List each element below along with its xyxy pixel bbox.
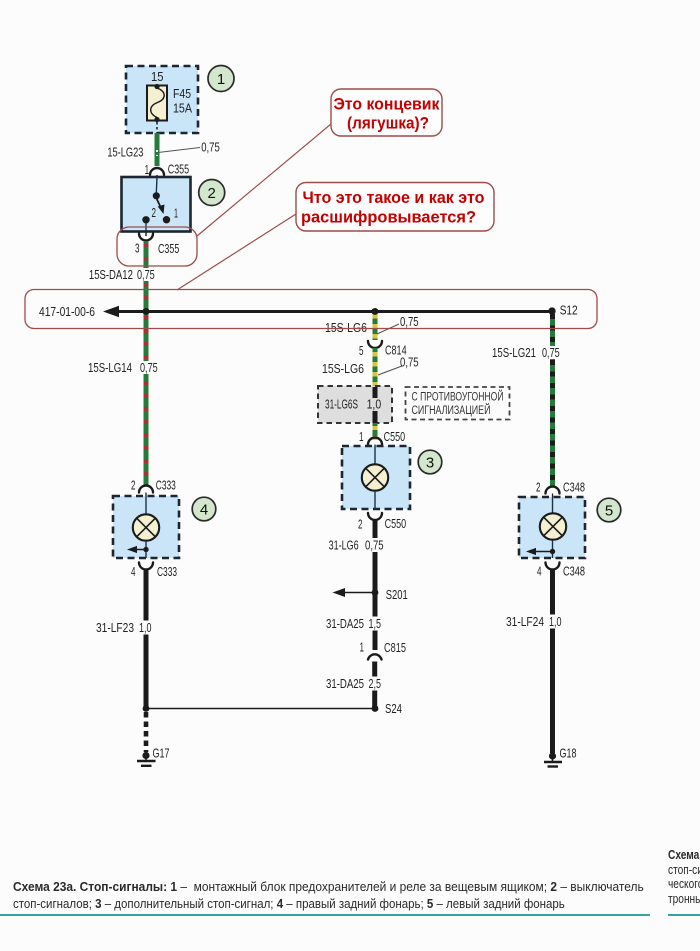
svg-text:3: 3 [426, 454, 434, 471]
dashed wire to ground G17 [144, 712, 149, 752]
teal footer rule left [0, 914, 650, 916]
svg-text:C355: C355 [168, 162, 189, 177]
junction node on bus (middle branch) [372, 308, 379, 315]
junction dot overlay S12 [548, 307, 555, 314]
right column text fragment [668, 848, 700, 906]
svg-text:1: 1 [360, 640, 365, 655]
svg-text:0,75: 0,75 [201, 140, 220, 155]
splice label S201 [383, 587, 409, 600]
stop light switch (component 2) [122, 177, 191, 232]
svg-text:S201: S201 [386, 587, 408, 602]
svg-text:(лягушка)?: (лягушка)? [347, 115, 429, 133]
svg-text:1,0: 1,0 [139, 620, 152, 635]
leader to 0,75 (lower) [378, 366, 402, 375]
red highlight box around bus [25, 290, 597, 329]
svg-text:0,75: 0,75 [542, 345, 560, 360]
connector C348 pin 4 (arc) [546, 563, 560, 570]
leader line to 0,75 [158, 148, 200, 153]
note box: с противоугонной сигнализацией [406, 387, 510, 420]
switch internal lead [155, 177, 158, 193]
svg-text:15S-LG6: 15S-LG6 [322, 361, 364, 376]
svg-text:4: 4 [537, 564, 542, 579]
wire 31-LG6 (black) lamp3 to S201 [373, 520, 378, 590]
fuse F45 15A [147, 84, 167, 122]
red highlight box around C355 pin 3 [117, 227, 197, 266]
svg-text:417-01-00-6: 417-01-00-6 [39, 304, 95, 319]
switch contact dot pin 2 [142, 216, 149, 223]
right tail lamp (component 4) [113, 496, 179, 558]
switch actuator arrow [157, 199, 165, 214]
svg-text:31-LF24: 31-LF24 [506, 614, 544, 629]
wire label 31-LG6 0,75 [329, 538, 387, 553]
splice label S24 [383, 701, 405, 714]
callout circle 5 [597, 498, 621, 522]
wire 15S-DA12 (green/red) switch to bus [144, 241, 149, 311]
svg-text:C550: C550 [385, 516, 407, 531]
label 31-LG6S 1,0 [325, 397, 384, 412]
svg-text:2: 2 [536, 480, 541, 495]
svg-text:S24: S24 [385, 701, 402, 716]
wire 31-DA25 2,5 C815 to S24 [372, 662, 377, 709]
wire junction line to S24 [146, 708, 375, 710]
svg-text:31-LF23: 31-LF23 [96, 620, 134, 635]
connector C348 pin 2 (arc) [546, 487, 560, 498]
svg-text:0,75: 0,75 [400, 314, 419, 329]
connector C355 pin 3 (arc) [139, 232, 153, 241]
junction dot overlay middle branch [372, 308, 379, 315]
svg-text:3: 3 [135, 241, 140, 256]
wire label 31-LF24 1,0 [506, 614, 565, 629]
callout circle 2 [199, 180, 225, 206]
wire 31-LF23 (black) lamp4 to ground junction [144, 570, 149, 709]
svg-text:15A: 15A [173, 101, 192, 116]
additional stop signal lamp (component 3) [342, 446, 410, 509]
red callout box 1: Это концевик (лягушка)? [331, 89, 442, 136]
svg-text:2: 2 [358, 517, 363, 532]
wire label 31-LF23 1,0 [96, 620, 155, 635]
dashed lead inside fuse box [156, 122, 158, 133]
svg-text:Что это такое и как это: Что это такое и как это [303, 189, 485, 207]
svg-text:C348: C348 [563, 564, 585, 579]
splice box wire 31-LG6S (gray dashed) [318, 386, 392, 423]
svg-text:1: 1 [217, 71, 225, 88]
svg-text:15S-LG14: 15S-LG14 [88, 360, 132, 375]
wire 31-LF24 (black) lamp5 to ground G18 [550, 570, 555, 753]
svg-text:31-DA25: 31-DA25 [326, 676, 364, 691]
connector C814 pin 5 (arc) [368, 341, 382, 348]
switch pin2 lead to bottom [145, 223, 147, 232]
svg-text:СИГНАЛИЗАЦИЕЙ: СИГНАЛИЗАЦИЕЙ [412, 404, 491, 417]
wire 31-DA25 1,5 S201 to C815 [373, 593, 378, 651]
svg-text:1: 1 [145, 162, 150, 177]
svg-text:C355: C355 [158, 241, 179, 256]
wire label 31-DA25 1,5 [326, 616, 384, 631]
svg-text:C333: C333 [157, 564, 177, 579]
svg-text:С ПРОТИВОУГОННОЙ: С ПРОТИВОУГОННОЙ [412, 391, 504, 404]
svg-text:15S-LG21: 15S-LG21 [492, 345, 536, 360]
red leader line to callout 2 [177, 214, 296, 290]
wire 15S-LG21 (green/black) S12 to left tail lamp [550, 311, 555, 486]
lamp 4 internal lead top [145, 496, 147, 515]
svg-text:2: 2 [131, 478, 136, 493]
red leader line to callout 1 [197, 124, 331, 236]
wire 15S-LG14 (green/red) bus to right tail lamp [144, 311, 149, 486]
black wire through splice box [373, 387, 378, 426]
svg-text:1: 1 [174, 206, 178, 221]
svg-text:G18: G18 [560, 746, 577, 761]
callout circle 1 [208, 66, 234, 92]
connector C333 pin 2 (arc) [139, 486, 153, 496]
red callout box 2: Что это такое и как это расшифровывается? [296, 183, 494, 232]
lamp 5 internal node with arrow [526, 540, 555, 558]
svg-text:15S-DA12: 15S-DA12 [89, 267, 133, 282]
ground G18 [544, 752, 562, 766]
lamp 3 bulb symbol [362, 464, 388, 490]
svg-text:5: 5 [605, 502, 613, 519]
wire label 15S-LG21 0,75 [492, 345, 563, 360]
svg-text:31-LG6: 31-LG6 [329, 538, 359, 553]
wire 15S-LG6 (green/yellow) C814 to splice box [373, 348, 378, 387]
wire label 31-DA25 2,5 [326, 676, 384, 691]
junction dot overlay left branch [143, 308, 150, 315]
lamp 4 internal node with arrow [127, 541, 149, 558]
wire label 15S-LG14 0,75 [88, 360, 160, 375]
svg-text:31-LG6S: 31-LG6S [325, 397, 358, 412]
connector C355 pin 1 (arc) [150, 168, 164, 178]
connector C550 pin 1 (arc) [368, 438, 382, 447]
connector C815 pin 1 (arc) [368, 654, 382, 659]
wire label 15S-DA12 0,75 [89, 267, 157, 282]
svg-text:2: 2 [152, 205, 157, 220]
svg-text:S12: S12 [560, 303, 578, 318]
caption line 1 [13, 879, 644, 894]
wire 15-LG23 (green) [155, 133, 160, 166]
leader to 0,75 (upper) [377, 324, 399, 334]
connector C550 pin 2 (arc) [368, 513, 382, 520]
fuse value label F45 15A [173, 86, 192, 116]
svg-text:Это концевик: Это концевик [334, 96, 441, 114]
svg-text:0,75: 0,75 [400, 355, 419, 370]
svg-text:4: 4 [200, 501, 208, 518]
svg-text:1: 1 [359, 429, 364, 444]
switch common contact dot [153, 192, 160, 199]
callout circle 4 [192, 497, 216, 521]
wire 15S-LG6 (green/yellow) bus to C814 [373, 311, 378, 340]
left tail lamp (component 5) [519, 497, 585, 558]
svg-text:15S-LG6: 15S-LG6 [325, 320, 367, 335]
svg-text:15: 15 [151, 69, 164, 84]
svg-text:5: 5 [359, 343, 364, 358]
svg-text:0,75: 0,75 [365, 538, 384, 553]
lamp 3 internal lead top [374, 446, 376, 465]
caption line 2 [13, 896, 565, 911]
svg-text:F45: F45 [173, 86, 191, 101]
splice node S201 with arrow [333, 588, 379, 597]
splice node S12 [548, 307, 555, 314]
svg-text:C550: C550 [384, 429, 406, 444]
svg-text:15-LG23: 15-LG23 [107, 145, 143, 160]
teal footer rule right column [668, 914, 700, 916]
svg-text:C815: C815 [384, 640, 406, 655]
svg-text:4: 4 [131, 564, 136, 579]
switch contact dot pin 1 [163, 216, 170, 223]
lamp 3 internal lead bottom [374, 491, 376, 509]
callout circle 3 [418, 450, 442, 474]
junction node on bus (left branch) [143, 308, 150, 315]
svg-text:31-DA25: 31-DA25 [326, 616, 364, 631]
svg-text:0,75: 0,75 [137, 267, 155, 282]
bus wire 417-01-00-6 with left arrow [103, 306, 552, 317]
svg-text:1,0: 1,0 [367, 397, 382, 412]
splice node S24 [372, 705, 379, 712]
lamp 5 bulb symbol [540, 513, 566, 539]
svg-text:1,5: 1,5 [369, 616, 382, 631]
svg-text:2: 2 [208, 185, 216, 202]
svg-text:C348: C348 [563, 480, 585, 495]
wire green/yellow splice box to C550 [373, 423, 378, 440]
svg-text:расшифровывается?: расшифровывается? [301, 209, 476, 227]
svg-text:G17: G17 [153, 746, 170, 761]
ground G17 [137, 752, 156, 766]
fuse box (component 1, монтажный блок) [126, 66, 198, 133]
svg-text:2,5: 2,5 [369, 676, 382, 691]
svg-text:1,0: 1,0 [549, 614, 562, 629]
connector C333 pin 4 (arc) [139, 563, 153, 570]
lamp 5 internal lead top [552, 497, 554, 514]
svg-text:C333: C333 [156, 478, 176, 493]
svg-text:0,75: 0,75 [140, 360, 158, 375]
junction node at S24 line (left) [143, 705, 150, 712]
lamp 4 bulb symbol [133, 514, 159, 540]
